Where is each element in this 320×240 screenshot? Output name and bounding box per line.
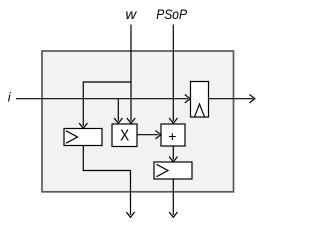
register R1 — [64, 129, 102, 146]
wire i horizontal input — [16, 98, 188, 100]
arrow into register R1 — [79, 123, 87, 128]
register R1 clock chevron — [66, 131, 78, 143]
arrow into adder (product) — [156, 131, 161, 139]
register R2 clock chevron — [157, 164, 169, 176]
wire i branch to multiplier — [117, 99, 119, 121]
latch clock triangle — [195, 104, 205, 117]
arrow into multiplier (i) — [114, 118, 122, 123]
wire PSoP vertical input — [172, 25, 174, 122]
wire multiplier to adder — [137, 134, 159, 136]
multiplier X — [112, 124, 137, 147]
wire w vertical input — [130, 25, 132, 122]
processing element outer box — [42, 51, 234, 192]
arrow into multiplier (w) — [127, 118, 135, 123]
svg-text:PSoP: PSoP — [156, 7, 187, 22]
wire register R1 output to bottom — [83, 146, 130, 216]
svg-text:X: X — [120, 128, 129, 145]
svg-text:w: w — [125, 7, 137, 22]
wire adder to register R2 — [172, 146, 174, 160]
arrow into register R2 — [169, 157, 177, 162]
wire latch output — [209, 98, 254, 100]
wire register R2 output down — [172, 179, 174, 215]
arrow PSoP output bottom — [169, 212, 177, 217]
arrow w output bottom — [126, 212, 134, 217]
arrow output right — [250, 95, 255, 103]
arrow into latch (i) — [185, 95, 190, 103]
arrow into adder (PSoP) — [169, 118, 177, 123]
wire w branch to register R1 — [83, 82, 131, 126]
latch (tall box) — [191, 82, 209, 118]
adder + — [161, 124, 185, 146]
svg-text:+: + — [168, 128, 176, 144]
register R2 — [154, 162, 192, 179]
